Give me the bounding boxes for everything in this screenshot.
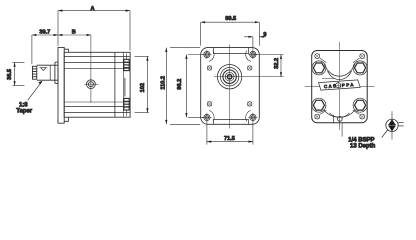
bolt hole BL: [202, 113, 211, 122]
logo center circle: [336, 83, 341, 88]
svg-text:71.5: 71.5: [224, 136, 235, 142]
svg-text:89.5: 89.5: [225, 16, 236, 22]
body line b2: [64, 106, 130, 108]
drain port circle: [337, 116, 342, 121]
corner casting arc BR: [246, 111, 251, 122]
drain circle: [87, 80, 96, 89]
body line b1: [64, 112, 130, 114]
corner bolt BL: [315, 114, 320, 119]
bolt hole TR: [248, 50, 257, 59]
top saddle contour 2: [328, 71, 352, 80]
contour diag TR: [353, 58, 360, 62]
threaded shaft tip: [33, 66, 37, 79]
horizontal centerline: [305, 86, 375, 88]
flange plate: [58, 47, 64, 123]
corner bolt TL: [315, 54, 320, 59]
top saddle contour 1: [324, 64, 355, 77]
svg-text:96.2: 96.2: [177, 79, 183, 90]
corner bolt TR: [360, 54, 365, 59]
svg-text:102: 102: [140, 83, 146, 92]
body outline: [312, 51, 368, 123]
dimension 102: [135, 56, 149, 112]
dimension 89.5: [201, 22, 260, 46]
corner casting arc BL: [209, 111, 214, 122]
svg-text:32.2: 32.2: [274, 58, 280, 69]
seal boss on flange face: [55, 62, 58, 83]
svg-text:9: 9: [263, 32, 266, 38]
bolt hole BR: [248, 113, 257, 122]
svg-text:Taper: Taper: [16, 108, 33, 114]
cover inner face: [122, 52, 124, 117]
shaft bottom line: [37, 79, 58, 81]
shaft top line: [37, 64, 58, 66]
top notch: [213, 48, 248, 54]
svg-text:110.2: 110.2: [160, 76, 166, 90]
hex plug TL: [312, 61, 326, 75]
svg-text:B: B: [72, 30, 76, 36]
corner casting arc TR: [246, 51, 251, 62]
hex plug BL: [312, 98, 326, 112]
keyway V notch: [41, 68, 46, 71]
pocket TL: [207, 66, 212, 71]
top port boss (hatched): [124, 59, 129, 70]
horizontal centerline: [214, 76, 284, 78]
bottom saddle contour 1: [324, 110, 355, 118]
body outline: [64, 52, 130, 117]
body line t1: [64, 55, 130, 57]
svg-text:39.7: 39.7: [39, 30, 50, 36]
logo plate: [319, 80, 361, 90]
pocket TR: [247, 66, 252, 71]
svg-text:13 Depth: 13 Depth: [350, 143, 376, 149]
bottom saddle contour 2: [330, 113, 350, 117]
dimension 36.5: [12, 62, 24, 85]
corner bolt BR: [360, 114, 365, 119]
dimension B: [58, 34, 91, 36]
vertical centerline: [339, 42, 341, 130]
spigot step bottom: [64, 117, 68, 121]
contour diag TL: [320, 58, 327, 62]
svg-text:36.5: 36.5: [7, 69, 13, 80]
corner casting arc TL: [209, 51, 214, 62]
bolt hole TL: [202, 50, 211, 59]
pocket BL: [207, 102, 212, 107]
top port centerline: [125, 54, 127, 60]
taper junction: [49, 65, 51, 80]
1:8 Taper label: [28, 82, 42, 100]
bottom port boss (hatched): [124, 98, 129, 110]
pump symbol: [382, 111, 404, 139]
dimension 39.7: [32, 35, 58, 64]
pocket BR: [247, 102, 252, 107]
hex plug BR: [353, 98, 367, 112]
dimension 110.2: [166, 48, 200, 125]
bottom notch: [213, 120, 248, 124]
contour diag BR: [353, 110, 360, 114]
dimension 32.2: [253, 55, 284, 77]
rear cover joint: [114, 52, 116, 117]
flange outline: [201, 48, 260, 125]
dimension 96.2: [186, 55, 204, 118]
spigot step top: [64, 49, 68, 52]
center boss circles: [217, 65, 241, 89]
vertical centerline: [229, 45, 231, 129]
svg-text:A: A: [90, 6, 94, 12]
dimension A: [58, 11, 130, 51]
dimension 71.5: [207, 122, 253, 145]
contour diag BL: [320, 110, 327, 114]
body line t2: [64, 62, 130, 64]
bottom port centerline: [125, 110, 127, 116]
body line b3: [64, 101, 130, 103]
dimension 9: [244, 37, 266, 50]
cover mid line: [124, 78, 126, 97]
1/4 BSPP label leader: [341, 123, 343, 137]
hex plug TR: [353, 61, 367, 75]
drain centerline horizontal: [85, 83, 99, 85]
body line t3: [64, 68, 130, 70]
drain centerline vertical: [90, 35, 92, 103]
